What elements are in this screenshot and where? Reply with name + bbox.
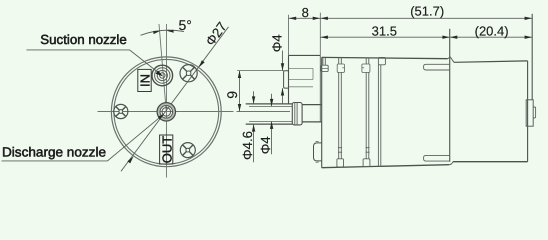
svg-text:9: 9 bbox=[224, 91, 240, 99]
clip 4 hook bbox=[378, 57, 385, 64]
vertical centerline bbox=[166, 24, 168, 178]
clip 2 bottom foot bbox=[337, 159, 344, 167]
svg-text:(20.4): (20.4) bbox=[475, 24, 509, 39]
nozzle axis line bbox=[237, 111, 291, 113]
head seam upper bbox=[289, 67, 314, 69]
clip 1 foot notch bbox=[321, 67, 328, 69]
dim 20.4 right arrow bbox=[525, 36, 532, 39]
boss top notch bbox=[316, 141, 319, 143]
clip 3 top foot bbox=[362, 64, 370, 72]
nozzle collar bbox=[292, 103, 302, 125]
svg-text:Φ4: Φ4 bbox=[269, 34, 284, 52]
clip 1 foot bbox=[321, 65, 328, 71]
head seam lower bbox=[289, 86, 314, 88]
extension line x288.5 bbox=[288, 15, 290, 55]
dim phi4 lower upper line bbox=[271, 94, 273, 107]
svg-text:IN: IN bbox=[138, 74, 153, 87]
body-motor zigzag bbox=[448, 57, 454, 62]
screw top-right bbox=[180, 65, 197, 82]
nozzle bore bottom bbox=[249, 121, 292, 123]
nozzle tube top edge bbox=[246, 103, 293, 105]
suction nozzle circles bbox=[152, 65, 173, 86]
motor bottom tab bbox=[424, 155, 450, 161]
dim 8 left arrow bbox=[289, 17, 296, 20]
pump head left face bbox=[288, 55, 290, 104]
head seam vertical bbox=[312, 68, 314, 79]
5-degree arc right arrow bbox=[167, 30, 174, 33]
center hub circles bbox=[157, 103, 175, 121]
dim 8 right arrow bbox=[313, 17, 320, 20]
bottom-left boss bbox=[314, 143, 322, 161]
dim phi4 lower lower arrow bbox=[270, 122, 273, 129]
clip 3 bottom foot bbox=[363, 159, 370, 167]
nozzle bore top bbox=[249, 105, 292, 107]
terminal nub bbox=[533, 107, 535, 118]
suction leader arrow bbox=[156, 71, 164, 77]
svg-text:Discharge nozzle: Discharge nozzle bbox=[2, 144, 106, 159]
clip 4 arm bbox=[378, 65, 380, 167]
clip 1 stems bbox=[323, 58, 325, 66]
pump head top edge bbox=[289, 54, 321, 56]
motor face line bbox=[449, 29, 451, 162]
dim phi4.6 lower arrow bbox=[252, 124, 255, 131]
svg-text:31.5: 31.5 bbox=[372, 24, 397, 39]
tube right segment top bbox=[302, 104, 322, 106]
dimension line y37.2 bbox=[321, 36, 533, 38]
OUT label box bbox=[160, 135, 173, 164]
dim phi4 top upper arrow bbox=[281, 63, 284, 70]
dim 31.5 left arrow bbox=[321, 36, 328, 39]
dimension line y18.3 bbox=[289, 17, 533, 19]
dim 9 extension line bbox=[237, 70, 283, 72]
terminal block bbox=[526, 100, 533, 126]
svg-text:8: 8 bbox=[302, 5, 309, 20]
clip 3 arm bbox=[366, 72, 369, 158]
front view outer circle bbox=[111, 57, 221, 167]
suction label underline bbox=[27, 49, 130, 51]
clip 3 upper stems bbox=[366, 58, 369, 65]
body bottom edge bbox=[322, 165, 450, 168]
discharge label underline bbox=[2, 160, 108, 162]
suction leader line bbox=[130, 50, 161, 75]
head right edge bbox=[319, 55, 321, 122]
extension line x320.3 bbox=[319, 13, 321, 56]
dim phi4 lower upper arrow bbox=[270, 99, 273, 106]
front view inner circle bbox=[114, 59, 219, 164]
body top edge bbox=[322, 57, 448, 58]
phi27 upper arrow bbox=[199, 60, 205, 67]
5-degree dimension arc bbox=[141, 30, 185, 35]
IN label box bbox=[138, 69, 151, 91]
tilted 5-degree line bbox=[159, 24, 166, 112]
svg-text:OUT: OUT bbox=[159, 136, 174, 164]
center hub ring shading bbox=[159, 104, 174, 119]
svg-text:Φ4.6: Φ4.6 bbox=[240, 131, 255, 160]
dim 31.5 right arrow bbox=[442, 36, 449, 39]
nozzle tube bottom edge bbox=[246, 123, 293, 125]
svg-text:Φ4: Φ4 bbox=[258, 136, 273, 154]
dim phi4 top lower arrow bbox=[281, 88, 284, 95]
svg-text:Suction nozzle: Suction nozzle bbox=[40, 32, 127, 47]
dim phi4 top lower line bbox=[282, 88, 284, 104]
upper nozzle stub bbox=[284, 71, 289, 88]
motor top edge bbox=[454, 61, 528, 62]
5-degree arc left arrow bbox=[153, 31, 160, 34]
svg-text:(51.7): (51.7) bbox=[410, 3, 444, 18]
tube right segment bottom bbox=[302, 121, 322, 123]
discharge leader arrow bbox=[158, 114, 165, 120]
body left face bbox=[321, 57, 323, 167]
dim 9 bottom arrow bbox=[238, 104, 241, 111]
dim phi4.6 lower line bbox=[253, 124, 255, 162]
clip 2 ticks bbox=[338, 148, 342, 153]
discharge leader line bbox=[108, 115, 164, 161]
phi27 diameter leader line bbox=[121, 27, 229, 172]
screw left bbox=[114, 104, 128, 118]
collar inner line right bbox=[296, 103, 298, 125]
clip 2 upper stems bbox=[339, 58, 342, 65]
dim 20.4 left arrow bbox=[450, 36, 457, 39]
bottom corner join bbox=[449, 162, 453, 165]
clip 2 arm bbox=[339, 72, 342, 158]
dim phi4 lower lower line bbox=[271, 122, 273, 155]
dim 51.7 left arrow bbox=[321, 17, 328, 20]
screw bottom-right bbox=[180, 143, 195, 158]
phi27 lower arrow bbox=[127, 156, 133, 163]
svg-text:5°: 5° bbox=[179, 17, 192, 33]
extension line x532.2 bbox=[531, 14, 533, 100]
dim phi4.6 upper arrow bbox=[252, 96, 255, 103]
clip 3 ticks bbox=[366, 148, 370, 153]
dim 9 top arrow bbox=[238, 71, 241, 78]
collar inner line left bbox=[294, 103, 296, 125]
dim 51.7 right arrow bbox=[525, 17, 532, 20]
motor right face bbox=[527, 61, 529, 162]
dim phi4.6 upper line bbox=[253, 91, 255, 104]
dim 9 line bbox=[239, 71, 241, 112]
motor top tab bbox=[424, 64, 450, 70]
clip 2 top foot bbox=[337, 64, 344, 72]
dim phi4 top upper line bbox=[282, 51, 284, 71]
horizontal centerline bbox=[98, 111, 234, 113]
svg-text:Φ27: Φ27 bbox=[203, 19, 230, 48]
motor bottom edge bbox=[453, 161, 528, 163]
head seam mid bbox=[289, 79, 314, 81]
boss bottom notch bbox=[316, 161, 319, 163]
